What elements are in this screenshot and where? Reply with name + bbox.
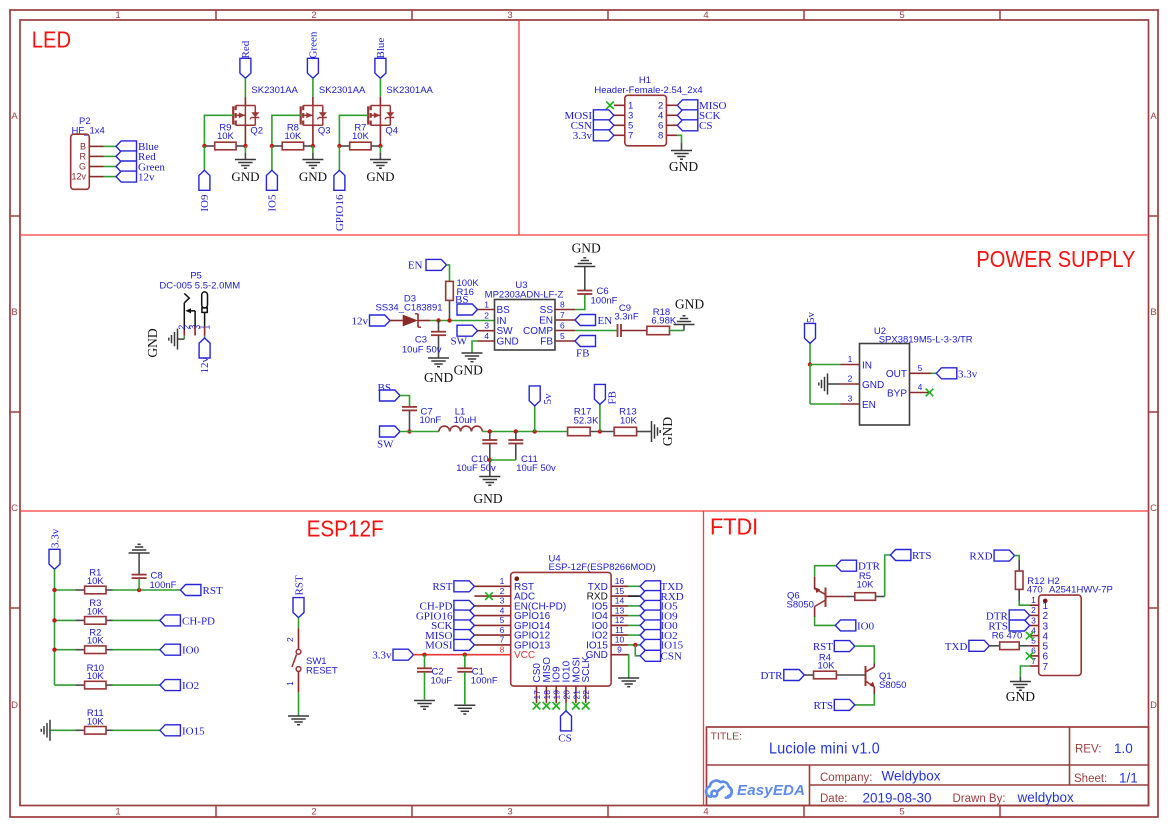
svg-text:8: 8 bbox=[500, 644, 505, 654]
svg-text:17: 17 bbox=[532, 690, 542, 700]
svg-text:2: 2 bbox=[311, 807, 316, 818]
svg-text:IO15: IO15 bbox=[182, 725, 205, 737]
svg-text:1: 1 bbox=[202, 325, 212, 330]
svg-text:3: 3 bbox=[484, 321, 489, 331]
svg-text:SW: SW bbox=[377, 439, 394, 451]
svg-text:B: B bbox=[11, 307, 17, 318]
svg-text:16: 16 bbox=[615, 576, 625, 586]
svg-text:LED: LED bbox=[32, 27, 71, 53]
svg-text:EN: EN bbox=[539, 315, 553, 326]
svg-text:GPIO16: GPIO16 bbox=[334, 194, 346, 231]
svg-text:4: 4 bbox=[703, 10, 708, 21]
svg-text:SK2301AA: SK2301AA bbox=[319, 85, 366, 96]
svg-text:10uF 50v: 10uF 50v bbox=[402, 345, 442, 356]
svg-text:3.3nF: 3.3nF bbox=[614, 312, 638, 323]
svg-text:100nF: 100nF bbox=[150, 580, 177, 591]
svg-text:Company:: Company: bbox=[820, 772, 872, 784]
svg-text:3.3v: 3.3v bbox=[573, 130, 593, 142]
svg-text:GND: GND bbox=[424, 370, 453, 385]
svg-text:VCC: VCC bbox=[514, 650, 535, 661]
svg-text:10uF 50v: 10uF 50v bbox=[516, 463, 556, 474]
svg-text:C: C bbox=[11, 503, 18, 514]
svg-text:10uH: 10uH bbox=[454, 415, 477, 426]
svg-text:Date:: Date: bbox=[820, 793, 848, 805]
svg-text:6: 6 bbox=[560, 320, 565, 330]
svg-text:3: 3 bbox=[507, 10, 512, 21]
svg-text:GND: GND bbox=[473, 491, 502, 506]
svg-text:1: 1 bbox=[1031, 595, 1036, 605]
svg-text:4: 4 bbox=[500, 605, 505, 615]
svg-text:SPX3819M5-L-3-3/TR: SPX3819M5-L-3-3/TR bbox=[879, 335, 973, 346]
svg-text:3: 3 bbox=[500, 596, 505, 606]
svg-text:RST: RST bbox=[203, 585, 223, 597]
svg-text:SK2301AA: SK2301AA bbox=[251, 85, 298, 96]
svg-text:100nF: 100nF bbox=[471, 676, 498, 687]
svg-text:SCLK: SCLK bbox=[581, 656, 592, 682]
svg-text:A2541HWV-7P: A2541HWV-7P bbox=[1049, 585, 1113, 596]
svg-text:FB: FB bbox=[607, 391, 619, 404]
svg-text:DC-005 5.5-2.0MM: DC-005 5.5-2.0MM bbox=[159, 281, 240, 292]
svg-text:4: 4 bbox=[484, 331, 489, 341]
svg-text:5v: 5v bbox=[542, 393, 554, 405]
svg-text:D: D bbox=[1150, 700, 1157, 711]
svg-text:8: 8 bbox=[560, 299, 565, 309]
svg-text:EasyEDA: EasyEDA bbox=[737, 782, 805, 799]
svg-text:GND: GND bbox=[299, 169, 327, 184]
svg-text:FB: FB bbox=[540, 336, 553, 347]
svg-text:GND: GND bbox=[669, 159, 698, 174]
svg-text:13: 13 bbox=[615, 605, 625, 615]
svg-text:10K: 10K bbox=[284, 131, 302, 142]
svg-text:D: D bbox=[11, 700, 18, 711]
svg-text:TITLE:: TITLE: bbox=[711, 731, 743, 743]
svg-text:GND: GND bbox=[1006, 689, 1035, 704]
svg-text:2: 2 bbox=[285, 637, 295, 642]
svg-text:POWER SUPPLY: POWER SUPPLY bbox=[976, 246, 1135, 272]
svg-text:6: 6 bbox=[500, 625, 505, 635]
svg-text:GND: GND bbox=[497, 336, 519, 347]
svg-text:52.3K: 52.3K bbox=[574, 416, 599, 427]
svg-text:5: 5 bbox=[500, 615, 505, 625]
svg-text:4: 4 bbox=[703, 807, 708, 818]
svg-text:1: 1 bbox=[484, 299, 489, 309]
svg-text:RST: RST bbox=[432, 581, 452, 593]
svg-text:RXD: RXD bbox=[969, 551, 992, 563]
svg-text:REV:: REV: bbox=[1075, 744, 1101, 756]
svg-text:10K: 10K bbox=[87, 606, 105, 617]
svg-text:EN: EN bbox=[408, 260, 423, 272]
svg-text:Q2: Q2 bbox=[250, 126, 263, 137]
svg-text:1/1: 1/1 bbox=[1119, 771, 1138, 786]
svg-text:Header-Female-2.54_2x4: Header-Female-2.54_2x4 bbox=[594, 85, 702, 96]
svg-text:2: 2 bbox=[1031, 605, 1036, 615]
svg-text:B: B bbox=[1150, 307, 1156, 318]
svg-text:S8050: S8050 bbox=[787, 600, 814, 611]
svg-text:11: 11 bbox=[615, 625, 624, 635]
svg-text:IO5: IO5 bbox=[267, 194, 279, 212]
svg-text:1: 1 bbox=[500, 576, 505, 586]
svg-text:7: 7 bbox=[560, 310, 565, 320]
svg-text:10K: 10K bbox=[620, 416, 638, 427]
svg-text:1: 1 bbox=[848, 354, 853, 364]
svg-text:12v: 12v bbox=[138, 171, 155, 183]
svg-text:18: 18 bbox=[542, 690, 552, 700]
svg-text:IO2: IO2 bbox=[182, 680, 199, 692]
svg-text:2019-08-30: 2019-08-30 bbox=[863, 791, 932, 806]
svg-text:19: 19 bbox=[552, 690, 562, 700]
svg-text:8: 8 bbox=[658, 131, 663, 142]
svg-text:OUT: OUT bbox=[886, 369, 907, 380]
svg-text:Q4: Q4 bbox=[385, 126, 398, 137]
svg-text:7: 7 bbox=[1043, 662, 1049, 673]
svg-text:10K: 10K bbox=[87, 671, 105, 682]
svg-text:CS: CS bbox=[558, 733, 571, 745]
svg-text:GND: GND bbox=[145, 328, 160, 357]
svg-text:SS34_C183891: SS34_C183891 bbox=[375, 302, 442, 313]
svg-text:3.3v: 3.3v bbox=[49, 528, 61, 548]
svg-text:21: 21 bbox=[571, 690, 581, 700]
svg-text:DTR: DTR bbox=[761, 670, 784, 682]
svg-text:5: 5 bbox=[560, 331, 565, 341]
svg-text:10K: 10K bbox=[818, 661, 836, 672]
svg-text:10K: 10K bbox=[87, 576, 105, 587]
svg-text:MOSI: MOSI bbox=[425, 640, 453, 652]
svg-text:1: 1 bbox=[115, 10, 120, 21]
svg-text:10K: 10K bbox=[87, 636, 105, 647]
svg-text:5v: 5v bbox=[805, 312, 817, 324]
svg-text:10uF: 10uF bbox=[431, 676, 453, 687]
svg-text:ESP12F: ESP12F bbox=[307, 516, 384, 542]
svg-text:COMP: COMP bbox=[523, 326, 553, 337]
svg-text:10K: 10K bbox=[87, 716, 105, 727]
svg-text:A: A bbox=[11, 111, 18, 122]
svg-text:5: 5 bbox=[899, 10, 904, 21]
svg-text:GND: GND bbox=[231, 169, 259, 184]
svg-text:3: 3 bbox=[507, 807, 512, 818]
svg-text:22: 22 bbox=[581, 690, 591, 700]
svg-text:Q3: Q3 bbox=[318, 126, 331, 137]
svg-text:RESET: RESET bbox=[306, 666, 338, 677]
svg-text:A: A bbox=[1150, 111, 1157, 122]
svg-text:GND: GND bbox=[366, 169, 394, 184]
svg-text:Red: Red bbox=[240, 40, 252, 58]
svg-text:weldybox: weldybox bbox=[1017, 790, 1075, 805]
svg-text:10: 10 bbox=[615, 635, 625, 645]
svg-text:IO0: IO0 bbox=[182, 645, 200, 657]
svg-text:EN: EN bbox=[862, 400, 876, 411]
svg-text:10K: 10K bbox=[217, 131, 235, 142]
svg-text:15: 15 bbox=[615, 586, 625, 596]
svg-text:100nF: 100nF bbox=[591, 296, 618, 307]
svg-text:CSN: CSN bbox=[661, 651, 682, 663]
svg-text:5: 5 bbox=[899, 807, 904, 818]
svg-text:Weldybox: Weldybox bbox=[882, 769, 941, 784]
svg-text:GND: GND bbox=[660, 417, 675, 446]
svg-text:Drawn By:: Drawn By: bbox=[953, 793, 1006, 805]
svg-text:ESP-12F(ESP8266MOD): ESP-12F(ESP8266MOD) bbox=[549, 562, 656, 573]
svg-text:CS: CS bbox=[699, 120, 712, 132]
svg-text:FTDI: FTDI bbox=[710, 514, 758, 540]
svg-text:Sheet:: Sheet: bbox=[1074, 773, 1107, 785]
svg-text:1: 1 bbox=[285, 681, 295, 686]
svg-text:2: 2 bbox=[500, 586, 505, 596]
svg-text:Green: Green bbox=[308, 31, 320, 58]
svg-text:FB: FB bbox=[576, 348, 589, 360]
svg-text:12v: 12v bbox=[199, 357, 211, 374]
svg-text:12v: 12v bbox=[71, 172, 86, 182]
svg-text:7: 7 bbox=[500, 635, 505, 645]
svg-text:4: 4 bbox=[918, 382, 923, 392]
svg-text:1.0: 1.0 bbox=[1114, 741, 1133, 756]
svg-text:R: R bbox=[80, 151, 87, 161]
svg-text:B: B bbox=[80, 141, 86, 151]
svg-text:12: 12 bbox=[615, 615, 625, 625]
svg-text:10K: 10K bbox=[352, 131, 370, 142]
svg-text:IN: IN bbox=[862, 360, 872, 371]
svg-text:3.3v: 3.3v bbox=[372, 650, 392, 662]
svg-text:BS: BS bbox=[497, 305, 511, 316]
svg-text:MP2303ADN-LF-Z: MP2303ADN-LF-Z bbox=[485, 290, 564, 301]
svg-text:9: 9 bbox=[617, 644, 622, 654]
svg-text:G: G bbox=[79, 162, 86, 172]
svg-text:GND: GND bbox=[862, 380, 884, 391]
svg-text:Blue: Blue bbox=[375, 38, 387, 59]
svg-text:Luciole mini v1.0: Luciole mini v1.0 bbox=[769, 741, 880, 758]
svg-text:20: 20 bbox=[561, 690, 571, 700]
svg-text:RST: RST bbox=[293, 575, 305, 595]
svg-text:SK2301AA: SK2301AA bbox=[386, 85, 433, 96]
svg-text:R6 470: R6 470 bbox=[992, 630, 1023, 641]
svg-text:GND: GND bbox=[572, 241, 601, 256]
svg-text:2: 2 bbox=[311, 10, 316, 21]
svg-text:SS: SS bbox=[540, 305, 554, 316]
svg-text:GND: GND bbox=[675, 297, 704, 312]
svg-text:3.3v: 3.3v bbox=[958, 368, 978, 380]
svg-text:RTS: RTS bbox=[813, 700, 833, 712]
svg-text:GND: GND bbox=[454, 363, 483, 378]
svg-text:2: 2 bbox=[484, 310, 489, 320]
svg-text:RST: RST bbox=[813, 641, 833, 653]
svg-text:IO0: IO0 bbox=[857, 620, 875, 632]
svg-text:12v: 12v bbox=[352, 315, 369, 327]
svg-text:6.98K: 6.98K bbox=[651, 316, 676, 327]
svg-text:TXD: TXD bbox=[945, 641, 968, 653]
svg-text:SW: SW bbox=[451, 336, 468, 348]
svg-text:BYP: BYP bbox=[887, 389, 907, 400]
svg-text:RTS: RTS bbox=[912, 550, 932, 562]
svg-text:2: 2 bbox=[848, 374, 853, 384]
svg-text:3: 3 bbox=[1031, 615, 1036, 625]
svg-text:3: 3 bbox=[848, 394, 853, 404]
svg-text:10uF 50v: 10uF 50v bbox=[456, 463, 496, 474]
svg-text:1: 1 bbox=[115, 807, 120, 818]
svg-text:CH-PD: CH-PD bbox=[182, 615, 215, 627]
svg-text:5: 5 bbox=[918, 363, 923, 373]
svg-text:14: 14 bbox=[615, 596, 625, 606]
svg-text:C: C bbox=[1150, 503, 1157, 514]
svg-text:10nF: 10nF bbox=[420, 415, 442, 426]
svg-text:EN: EN bbox=[598, 315, 613, 327]
svg-text:7: 7 bbox=[628, 131, 633, 142]
svg-text:IO9: IO9 bbox=[199, 194, 211, 212]
svg-text:S8050: S8050 bbox=[879, 680, 906, 691]
svg-text:10K: 10K bbox=[857, 580, 875, 591]
